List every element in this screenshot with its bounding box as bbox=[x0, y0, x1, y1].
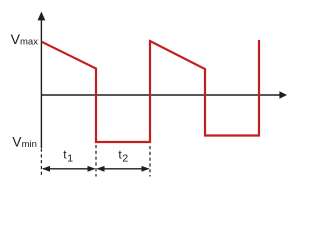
svg-text:2: 2 bbox=[122, 153, 128, 165]
x-axis arrowhead bbox=[279, 91, 287, 99]
label t1 bbox=[63, 148, 73, 165]
svg-text:1: 1 bbox=[67, 153, 73, 165]
y-axis arrowhead bbox=[38, 12, 46, 21]
y-axis bbox=[40, 20, 42, 149]
label t2 bbox=[118, 148, 128, 165]
svg-text:V: V bbox=[12, 134, 21, 149]
svg-text:min: min bbox=[22, 139, 37, 150]
waveform bbox=[42, 40, 260, 142]
svg-text:max: max bbox=[20, 37, 38, 48]
dashed drop line t2 end bbox=[149, 146, 151, 177]
dashed drop line at x-axis origin bbox=[40, 149, 42, 177]
t1 interval arrow bbox=[42, 166, 96, 172]
t2 interval arrow bbox=[97, 166, 150, 172]
label Vmin bbox=[12, 134, 37, 150]
label Vmax bbox=[11, 31, 39, 47]
dashed drop line t1/t2 boundary bbox=[95, 145, 97, 177]
x-axis bbox=[41, 94, 280, 96]
